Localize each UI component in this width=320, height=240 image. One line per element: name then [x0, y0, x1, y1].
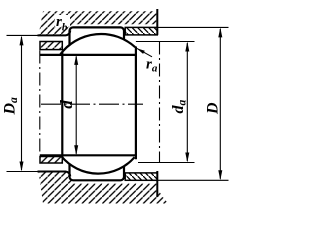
D extension line upper: [157, 26, 228, 28]
D extension line lower: [157, 179, 228, 181]
label r_b: [55, 15, 70, 27]
inner ring sphere upper arc: [60, 34, 135, 54]
shaft abutment line lower (d_a extension): [138, 162, 195, 164]
inner ring sphere lower arc: [61, 156, 134, 173]
dimension d top arrow: [74, 55, 78, 65]
shaft abutment line upper (d_a extension): [136, 41, 195, 43]
dimension d bottom arrow: [74, 145, 78, 155]
dimension d_a top arrow: [185, 42, 189, 52]
outer ring upper: [70, 27, 125, 45]
inner ring right face: [135, 47, 137, 160]
housing upper section hatch: [39, 11, 158, 35]
outer ring lower: [70, 164, 125, 180]
left vertical centerline: [39, 51, 41, 156]
abutment sleeve upper: [40, 42, 62, 50]
svg-text:D: D: [205, 102, 222, 115]
axis centerline: [41, 103, 143, 105]
dimension D_a bottom arrow: [20, 162, 24, 172]
dimension D line: [219, 29, 221, 179]
locating cover ring lower: [125, 173, 157, 180]
dimension d line: [75, 57, 77, 154]
dimension D_a line: [21, 37, 23, 170]
inner ring bore lower line: [40, 154, 136, 156]
dimension D bottom arrow: [218, 170, 222, 180]
right vertical phantom line: [159, 42, 161, 163]
locating cover ring upper: [125, 27, 157, 35]
abutment sleeve lower: [40, 157, 62, 164]
housing upper outline: [38, 9, 158, 35]
r_a leader arrow: [137, 48, 153, 57]
svg-text:d: d: [57, 100, 76, 109]
D_a extension line upper: [7, 34, 38, 36]
inner ring bore upper line: [40, 54, 136, 56]
housing lower section hatch: [39, 172, 169, 204]
inner ring left face: [61, 52, 63, 157]
D_a extension line lower: [7, 171, 38, 173]
dimension D top arrow: [218, 27, 222, 37]
housing lower outline: [38, 171, 158, 197]
dimension d_a line: [186, 43, 188, 161]
dimension D_a top arrow: [20, 35, 24, 45]
dimension d_a bottom arrow: [185, 153, 189, 163]
